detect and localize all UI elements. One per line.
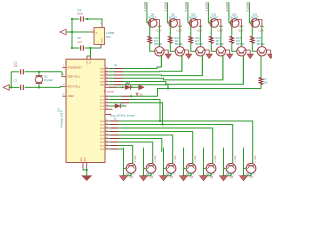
- wire RD6 to segment driver 2: [119, 142, 153, 164]
- +12V supply: [178, 25, 182, 27]
- power supply arrow +9V input: [60, 29, 66, 35]
- svg-text:SEG G: SEG G: [253, 156, 255, 163]
- wire digit output 3: [204, 49, 210, 51]
- transistor Q11a BD140: [216, 47, 225, 56]
- wire to LED: [117, 86, 125, 88]
- svg-text:IR anode: IR anode: [104, 91, 115, 94]
- svg-text:BD140: BD140: [195, 43, 203, 46]
- wire XTAL1 jog: [61, 72, 64, 77]
- wire digit output 6: [265, 49, 271, 51]
- wire RE0 net: [119, 148, 124, 150]
- svg-text:Q4: Q4: [190, 176, 194, 179]
- ground symbol Q7: [240, 176, 248, 181]
- wire base feed col2: [181, 56, 183, 71]
- svg-text:BD140: BD140: [257, 43, 265, 46]
- resistor R3 base 1k: [109, 74, 114, 76]
- wire digit stub 6: [248, 2, 250, 23]
- wire collector Q13: [251, 27, 253, 37]
- resistor R1 base 1k: [109, 68, 114, 70]
- svg-text:BD140: BD140: [236, 43, 244, 46]
- crystal Q1: [38, 72, 40, 76]
- wire vertical caps: [10, 72, 12, 88]
- svg-text:SEG E: SEG E: [213, 156, 215, 163]
- svg-text:SEG B: SEG B: [153, 156, 155, 163]
- transistor Q6 BC547: [226, 163, 236, 173]
- wire RA2 to digit driver 3: [123, 56, 203, 76]
- diode D1: [109, 105, 115, 107]
- svg-text:VCC: VCC: [85, 60, 87, 65]
- wire RC4 IR data: [109, 108, 113, 110]
- wire base feed col6: [260, 55, 262, 57]
- wire +12V rail to Q8a: [158, 26, 160, 47]
- svg-text:GND: GND: [85, 157, 87, 162]
- ground symbol Q1: [120, 176, 128, 181]
- +12V supply: [158, 25, 162, 27]
- MCU pin RC1 stub: [105, 99, 109, 101]
- wire collector Q5: [203, 148, 205, 176]
- resistor seg RD3: [109, 131, 111, 133]
- MCU pin RA1 stub: [105, 71, 109, 73]
- junction crystal bottom: [38, 86, 40, 88]
- transistor Q12 BC557: [230, 19, 239, 28]
- wire digit stub 2: [166, 2, 168, 23]
- wire RC0 net: [130, 95, 158, 97]
- IR receiver pin row: [105, 114, 109, 116]
- transistor Q12a BD140: [237, 47, 246, 56]
- resistor R9 on RC1: [109, 99, 122, 101]
- wire emitter Q3: [164, 173, 172, 176]
- wire +12V rail to Q11a: [220, 26, 222, 47]
- wire R15 to base: [252, 43, 257, 51]
- svg-text:SEG F: SEG F: [233, 156, 235, 163]
- resistor R10 4k7: [148, 36, 152, 43]
- +12V supply: [199, 25, 203, 27]
- svg-text:BC557: BC557: [189, 15, 197, 19]
- pin stub regulator GND: [100, 45, 102, 49]
- wire XTAL1 rail: [11, 71, 19, 73]
- MCU pin RD3 stub: [105, 131, 109, 133]
- transistor Q10a BD140: [196, 47, 205, 56]
- MCU pin RC0 stub: [105, 95, 109, 97]
- wire base feed col4: [222, 56, 224, 80]
- svg-text:15p: 15p: [14, 64, 19, 68]
- wire collector Q9: [169, 27, 171, 37]
- wire R14 to base: [232, 43, 237, 51]
- resistor seg RD7: [109, 145, 111, 147]
- svg-text:36: 36: [106, 77, 108, 79]
- MCU pin RA5 stub: [105, 84, 109, 86]
- wire RD0 to segment driver: [119, 121, 253, 164]
- transistor Q1 BC547: [126, 163, 136, 173]
- MCU pin RD6 stub: [105, 141, 109, 143]
- wire collector Q4: [183, 148, 185, 176]
- svg-text:24: 24: [106, 137, 108, 139]
- svg-text:100n: 100n: [77, 12, 84, 16]
- svg-text:27: 27: [106, 148, 108, 150]
- wire digit output 1: [163, 49, 169, 51]
- junction crystal top: [38, 71, 40, 73]
- svg-text:BD140: BD140: [175, 43, 183, 46]
- resistor R8 on RC0: [109, 95, 122, 97]
- resistor seg RD4: [109, 134, 111, 136]
- svg-text:BC557: BC557: [210, 15, 218, 19]
- transistor Q2 BC547: [146, 163, 156, 173]
- wire emitter Q5: [204, 173, 212, 176]
- ground symbol MCU: [82, 176, 92, 181]
- transistor Q3 BC547: [166, 163, 176, 173]
- resistor R14 4k7: [230, 36, 234, 43]
- svg-text:RB7/XTAL2: RB7/XTAL2: [68, 85, 81, 88]
- svg-text:38: 38: [106, 83, 108, 85]
- MCU pin LED row stub: [105, 86, 109, 88]
- wire RA5 to digit driver 6: [123, 85, 262, 89]
- svg-text:Krystal: Krystal: [44, 78, 53, 82]
- transistor Q10 BC557: [189, 19, 198, 28]
- pin stub MCU VCC: [86, 56, 88, 59]
- svg-text:BC557: BC557: [230, 15, 238, 19]
- svg-text:+12V: +12V: [176, 28, 182, 32]
- arrow digit 3 out: [206, 54, 212, 58]
- wire RD7 to Q1 base: [119, 146, 133, 164]
- wire digit output 2: [183, 49, 189, 51]
- MCU pin RC2 stub: [105, 102, 109, 104]
- resistor seg RD0: [109, 120, 111, 122]
- wire collector Q2: [143, 148, 145, 176]
- svg-text:19: 19: [106, 108, 108, 110]
- MCU pin RE0 stub: [105, 148, 109, 150]
- wire emitter Q12 to +12V: [237, 18, 241, 20]
- wire digit stub 3: [187, 2, 189, 23]
- wire RD3 to segment driver: [119, 132, 193, 164]
- wire +12V rail to Q9a: [179, 26, 181, 47]
- arrow digit 5 out: [247, 54, 253, 58]
- svg-text:22: 22: [106, 130, 108, 132]
- arrow digit 4 out: [227, 54, 233, 58]
- wire collector Q8: [149, 27, 151, 37]
- wire R7 up to driver 6: [260, 56, 262, 78]
- wire emitter Q9 to +12V: [176, 18, 180, 20]
- wire RC1 down bus: [130, 100, 160, 122]
- LED D2 infrared: [125, 85, 130, 90]
- resistor seg RD2: [109, 127, 111, 129]
- resistor R4 base 1k: [109, 77, 114, 79]
- wire +12V rail to Q13a: [261, 26, 263, 47]
- svg-text:SEG D: SEG D: [193, 156, 195, 163]
- wire emitter Q13 to +12V: [258, 18, 262, 20]
- wire RD1 to segment driver: [119, 125, 233, 164]
- svg-text:SEG C: SEG C: [173, 156, 175, 163]
- svg-text:35: 35: [106, 74, 108, 76]
- svg-text:21: 21: [106, 127, 108, 129]
- wire collector Q6: [223, 148, 225, 176]
- MCU ground net: [82, 163, 84, 169]
- wire R12 to base: [191, 43, 196, 51]
- capacitor C4: [80, 16, 82, 21]
- svg-text:Q5: Q5: [210, 176, 214, 179]
- wire RD5 net: [119, 139, 162, 153]
- wire +5V to MCU VCC: [87, 48, 91, 56]
- pin stub RESET: [62, 66, 66, 68]
- resistor R12 4k7: [189, 36, 193, 43]
- wire collector Q11: [210, 27, 212, 37]
- MCU pin RC3 stub: [105, 105, 109, 107]
- wire RD2 to segment driver: [119, 128, 213, 164]
- svg-text:25: 25: [106, 141, 108, 143]
- wire RA3 to digit driver 4: [123, 56, 223, 80]
- wire base feed col3: [201, 56, 203, 76]
- wire R13 to base: [211, 43, 216, 51]
- wire C4 to regulator VO: [87, 19, 102, 25]
- capacitor C1: [20, 69, 22, 74]
- svg-text:IC1: IC1: [57, 107, 61, 112]
- MCU pin RD0 stub: [105, 120, 109, 122]
- pin stub XTAL2: [63, 85, 66, 87]
- resistor seg RD1: [109, 124, 111, 126]
- svg-text:C2: C2: [14, 78, 18, 82]
- wire digit stub 5: [228, 2, 230, 23]
- wire R7 bottom: [260, 85, 262, 89]
- ground symbol Q6: [220, 176, 228, 181]
- transistor Q8a BD140: [155, 47, 164, 56]
- transistor Q13a BD140: [257, 47, 266, 56]
- wire RC2 down bus: [130, 103, 163, 125]
- arrow digit 2 out: [186, 54, 192, 58]
- ground symbol Q3: [160, 176, 168, 181]
- +12V supply: [219, 25, 223, 27]
- svg-text:+12V: +12V: [217, 28, 223, 32]
- svg-text:19: 19: [106, 120, 108, 122]
- svg-text:BC557: BC557: [148, 15, 156, 19]
- svg-text:37: 37: [106, 80, 108, 82]
- wire R10 to base: [150, 43, 155, 51]
- wire emitter Q2: [144, 173, 152, 176]
- svg-text:+12V: +12V: [196, 28, 202, 32]
- MCU pin RA0 stub: [105, 68, 109, 70]
- wire RA4 to digit driver 5: [123, 56, 244, 84]
- wire collector Q12: [231, 27, 233, 37]
- wire +12V rail to Q10a: [199, 26, 201, 47]
- svg-text:16: 16: [106, 98, 108, 100]
- resistor seg RD6: [109, 141, 111, 143]
- ground arrow left: [3, 85, 9, 91]
- wire emitter Q10 to +12V: [196, 18, 200, 20]
- pin stub regulator VO: [101, 25, 103, 28]
- svg-text:SEG A: SEG A: [133, 156, 136, 163]
- svg-text:+12V: +12V: [258, 28, 264, 32]
- svg-text:Q1: Q1: [130, 176, 134, 179]
- MCU pin RA3 stub: [105, 77, 109, 79]
- svg-text:GND: GND: [102, 38, 104, 43]
- ground symbol Q5: [200, 176, 208, 181]
- resistor R17 on RC2: [109, 102, 122, 104]
- wire digit stub 1: [146, 2, 148, 23]
- svg-text:18: 18: [106, 105, 108, 107]
- wire RC0 to R7 col6: [158, 89, 169, 97]
- svg-text:33: 33: [106, 67, 108, 69]
- junction C5 right: [89, 47, 91, 49]
- resistor R7: [259, 78, 263, 85]
- transistor Q9 BC557: [169, 19, 178, 28]
- svg-text:34: 34: [106, 70, 108, 72]
- svg-text:+12V: +12V: [237, 28, 243, 32]
- transistor Q5 BC547: [206, 163, 216, 173]
- svg-text:Q6: Q6: [230, 176, 234, 179]
- arrow digit 1 out: [165, 54, 171, 58]
- transistor Q7 BC547: [246, 163, 256, 173]
- svg-text:23: 23: [106, 134, 108, 136]
- wire VIN horizontal: [66, 31, 90, 33]
- capacitor C2: [20, 85, 22, 90]
- wire RD4 to segment driver: [119, 135, 173, 164]
- wire emitter Q7: [244, 173, 252, 176]
- ground symbol Q2: [140, 176, 148, 181]
- ground symbol Q4: [180, 176, 188, 181]
- pin stub regulator VI: [90, 31, 94, 33]
- svg-text:VCC: VCC: [88, 60, 90, 65]
- resistor R6 base 1k: [109, 84, 114, 86]
- wire collector Q1: [123, 148, 125, 176]
- junction C4 right: [86, 18, 88, 20]
- wire LED to arrow: [130, 86, 140, 88]
- +12V supply: [260, 25, 264, 27]
- svg-text:Q7: Q7: [250, 176, 254, 179]
- svg-text:IC2: IC2: [106, 35, 111, 39]
- resistor R6 LED: [109, 86, 117, 88]
- transistor Q11 BC557: [210, 19, 219, 28]
- wire RA0 to digit driver 1: [123, 56, 162, 69]
- resistor R15 4k7: [251, 36, 255, 43]
- resistor R11 4k7: [169, 36, 173, 43]
- wire base feed col5: [242, 56, 244, 84]
- wire R11 to base: [170, 43, 175, 51]
- junction: [10, 86, 12, 88]
- svg-text:PGM/RESET: PGM/RESET: [68, 66, 83, 69]
- pin stub XTAL1: [63, 76, 66, 78]
- junction: [71, 18, 73, 20]
- +5v supply stub: [136, 93, 138, 96]
- wire C4 top rail: [72, 18, 79, 20]
- svg-text:BC557: BC557: [251, 15, 259, 19]
- wire emitter Q8 to +12V: [155, 18, 159, 20]
- svg-text:RB6/XTAL1: RB6/XTAL1: [68, 76, 81, 79]
- MCU pin RA2 stub: [105, 74, 109, 76]
- transistor Q13 BC557: [251, 19, 260, 28]
- wire collector Q3: [163, 148, 165, 176]
- wire emitter Q11 to +12V: [217, 18, 221, 20]
- svg-text:AREF: AREF: [68, 95, 75, 98]
- +12V supply: [240, 25, 244, 27]
- MCU pin RD1 stub: [105, 124, 109, 126]
- transistor Q8 BC557: [148, 19, 157, 28]
- wire vertical left PSU: [71, 19, 73, 48]
- wire XTAL2 jog: [60, 86, 62, 87]
- wire +12V rail to Q12a: [240, 26, 242, 47]
- wire collector Q7: [243, 148, 245, 176]
- transistor Q4 BC547: [186, 163, 196, 173]
- svg-text:4u7: 4u7: [78, 40, 83, 44]
- svg-text:Q3: Q3: [170, 176, 174, 179]
- resistor seg RE0: [109, 148, 111, 150]
- svg-text:BD140: BD140: [154, 43, 162, 46]
- svg-text:GND: GND: [81, 157, 83, 162]
- svg-text:+12V: +12V: [155, 28, 161, 32]
- microcontroller IC1 box: [66, 59, 105, 162]
- MCU pin RD4 stub: [105, 134, 109, 136]
- resistor R13 4k7: [210, 36, 214, 43]
- wire digit output 4: [224, 49, 230, 51]
- svg-text:Q2: Q2: [150, 176, 154, 179]
- wire emitter Q1: [124, 173, 132, 176]
- resistor R2 base 1k: [109, 71, 114, 73]
- svg-text:20: 20: [106, 123, 108, 125]
- svg-text:BC557: BC557: [169, 15, 177, 19]
- MCU pin RD7 stub: [105, 145, 109, 147]
- wire RA1 to digit driver 2: [123, 56, 182, 72]
- transistor Q9a BD140: [175, 47, 184, 56]
- output arrow IR: [139, 85, 145, 90]
- MCU pin RC4 stub: [105, 108, 109, 110]
- svg-text:26: 26: [106, 144, 108, 146]
- arrow digit 6 out: [268, 54, 274, 58]
- svg-text:17: 17: [106, 101, 108, 103]
- svg-text:15: 15: [106, 95, 108, 97]
- wire digit output 5: [245, 49, 251, 51]
- svg-text:BD140: BD140: [216, 43, 224, 46]
- wire XTAL2 rail: [9, 86, 20, 88]
- MCU pin RD5 stub: [105, 138, 109, 140]
- wire emitter Q6: [224, 173, 232, 176]
- MCU pin RD2 stub: [105, 127, 109, 129]
- wire base feed col1: [160, 56, 162, 67]
- MCU pin RA4 stub: [105, 81, 109, 83]
- pin stub AREF: [62, 95, 66, 97]
- resistor seg RD5: [109, 138, 111, 140]
- wire emitter Q4: [184, 173, 192, 176]
- wire collector Q10: [190, 27, 192, 37]
- wire digit stub 4: [207, 2, 209, 23]
- capacitor C5: [80, 45, 82, 50]
- voltage regulator IC2 L7805: [94, 28, 105, 45]
- wire C5 rail: [72, 47, 79, 49]
- resistor R5 base 1k: [109, 81, 114, 83]
